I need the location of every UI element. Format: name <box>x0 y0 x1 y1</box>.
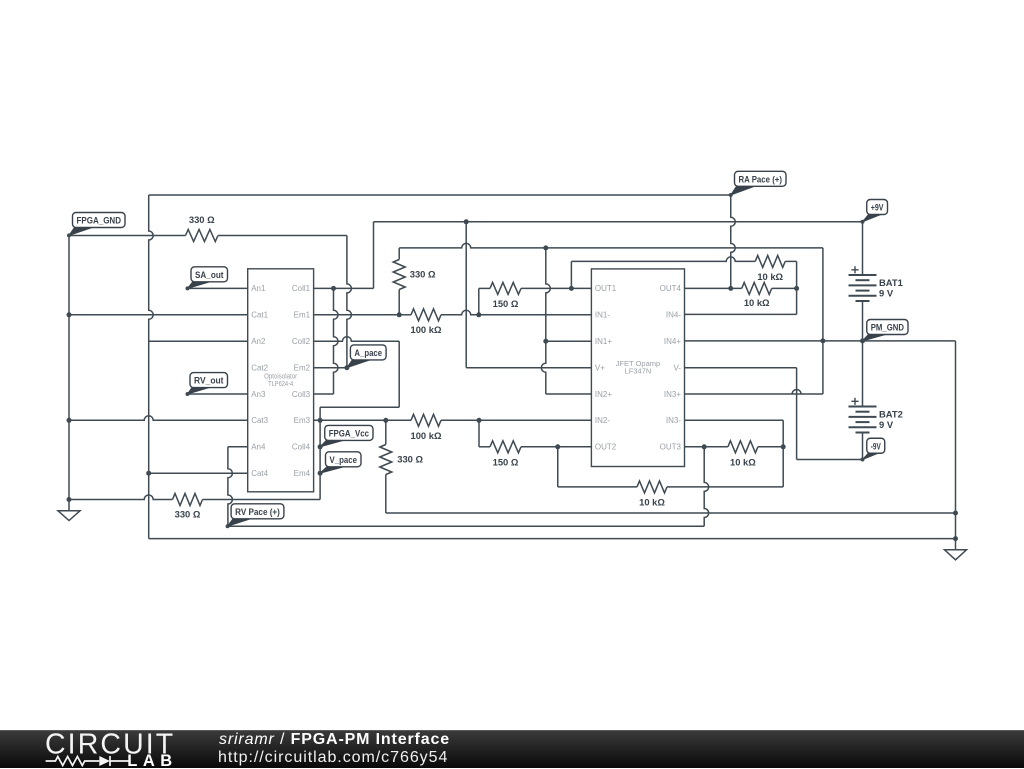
svg-text:BAT1: BAT1 <box>879 277 903 288</box>
svg-text:100 kΩ: 100 kΩ <box>411 430 442 441</box>
svg-text:A_pace: A_pace <box>354 348 382 359</box>
svg-text:IN2+: IN2+ <box>595 390 612 399</box>
svg-text:RA Pace (+): RA Pace (+) <box>739 174 783 185</box>
svg-text:330 Ω: 330 Ω <box>410 269 436 280</box>
svg-text:Coll4: Coll4 <box>292 443 311 452</box>
svg-text:Cat1: Cat1 <box>251 311 268 320</box>
svg-text:Coll2: Coll2 <box>292 337 311 346</box>
svg-text:LAB: LAB <box>127 752 177 769</box>
svg-text:PM_GND: PM_GND <box>871 323 904 334</box>
svg-text:BAT2: BAT2 <box>879 409 903 420</box>
svg-text:An2: An2 <box>251 337 266 346</box>
svg-text:330 Ω: 330 Ω <box>189 214 215 225</box>
svg-text:10 kΩ: 10 kΩ <box>730 456 756 467</box>
svg-text:An4: An4 <box>251 443 266 452</box>
svg-text:An3: An3 <box>251 390 266 399</box>
svg-text:IN1+: IN1+ <box>595 337 612 346</box>
svg-text:SA_out: SA_out <box>195 270 224 281</box>
svg-text:IN4-: IN4- <box>666 311 681 320</box>
svg-text:Coll1: Coll1 <box>292 284 311 293</box>
svg-text:9 V: 9 V <box>879 419 894 430</box>
svg-text:V_pace: V_pace <box>330 455 358 466</box>
svg-text:10 kΩ: 10 kΩ <box>744 297 770 308</box>
svg-text:FPGA_Vcc: FPGA_Vcc <box>329 429 369 440</box>
svg-text:An1: An1 <box>251 284 266 293</box>
svg-text:IN3+: IN3+ <box>664 390 681 399</box>
svg-text:TLP624-4: TLP624-4 <box>268 381 293 388</box>
svg-text:10 kΩ: 10 kΩ <box>639 496 665 507</box>
svg-text:LF347N: LF347N <box>625 366 652 375</box>
svg-text:150 Ω: 150 Ω <box>493 298 519 309</box>
svg-text:Em3: Em3 <box>294 416 311 425</box>
svg-text:330 Ω: 330 Ω <box>397 454 423 465</box>
svg-text:RV Pace (+): RV Pace (+) <box>235 507 280 518</box>
svg-text:FPGA_GND: FPGA_GND <box>77 216 122 227</box>
svg-text:330 Ω: 330 Ω <box>175 508 201 519</box>
svg-text:Optoisolator: Optoisolator <box>264 373 298 380</box>
svg-text:RV_out: RV_out <box>194 376 224 387</box>
svg-text:Cat2: Cat2 <box>251 364 268 373</box>
svg-text:V-: V- <box>673 364 681 373</box>
svg-text:OUT2: OUT2 <box>595 443 617 452</box>
svg-text:OUT4: OUT4 <box>660 284 682 293</box>
svg-text:150 Ω: 150 Ω <box>493 457 519 468</box>
svg-text:Cat3: Cat3 <box>251 416 268 425</box>
svg-text:Em1: Em1 <box>294 311 311 320</box>
svg-text:100 kΩ: 100 kΩ <box>411 324 442 335</box>
svg-text:OUT3: OUT3 <box>660 443 682 452</box>
svg-text:IN1-: IN1- <box>595 311 610 320</box>
svg-text:IN4+: IN4+ <box>664 337 681 346</box>
svg-text:OUT1: OUT1 <box>595 284 617 293</box>
svg-text:IN3-: IN3- <box>666 416 681 425</box>
svg-text:Em4: Em4 <box>294 469 311 478</box>
svg-text:-9V: -9V <box>871 441 881 452</box>
svg-text:Cat4: Cat4 <box>251 469 268 478</box>
svg-text:Em2: Em2 <box>294 364 311 373</box>
svg-text:9 V: 9 V <box>879 288 894 299</box>
svg-text:V+: V+ <box>595 364 605 373</box>
svg-text:+9V: +9V <box>871 203 884 214</box>
svg-text:IN2-: IN2- <box>595 416 610 425</box>
svg-text:10 kΩ: 10 kΩ <box>757 271 783 282</box>
svg-text:Coll3: Coll3 <box>292 390 311 399</box>
